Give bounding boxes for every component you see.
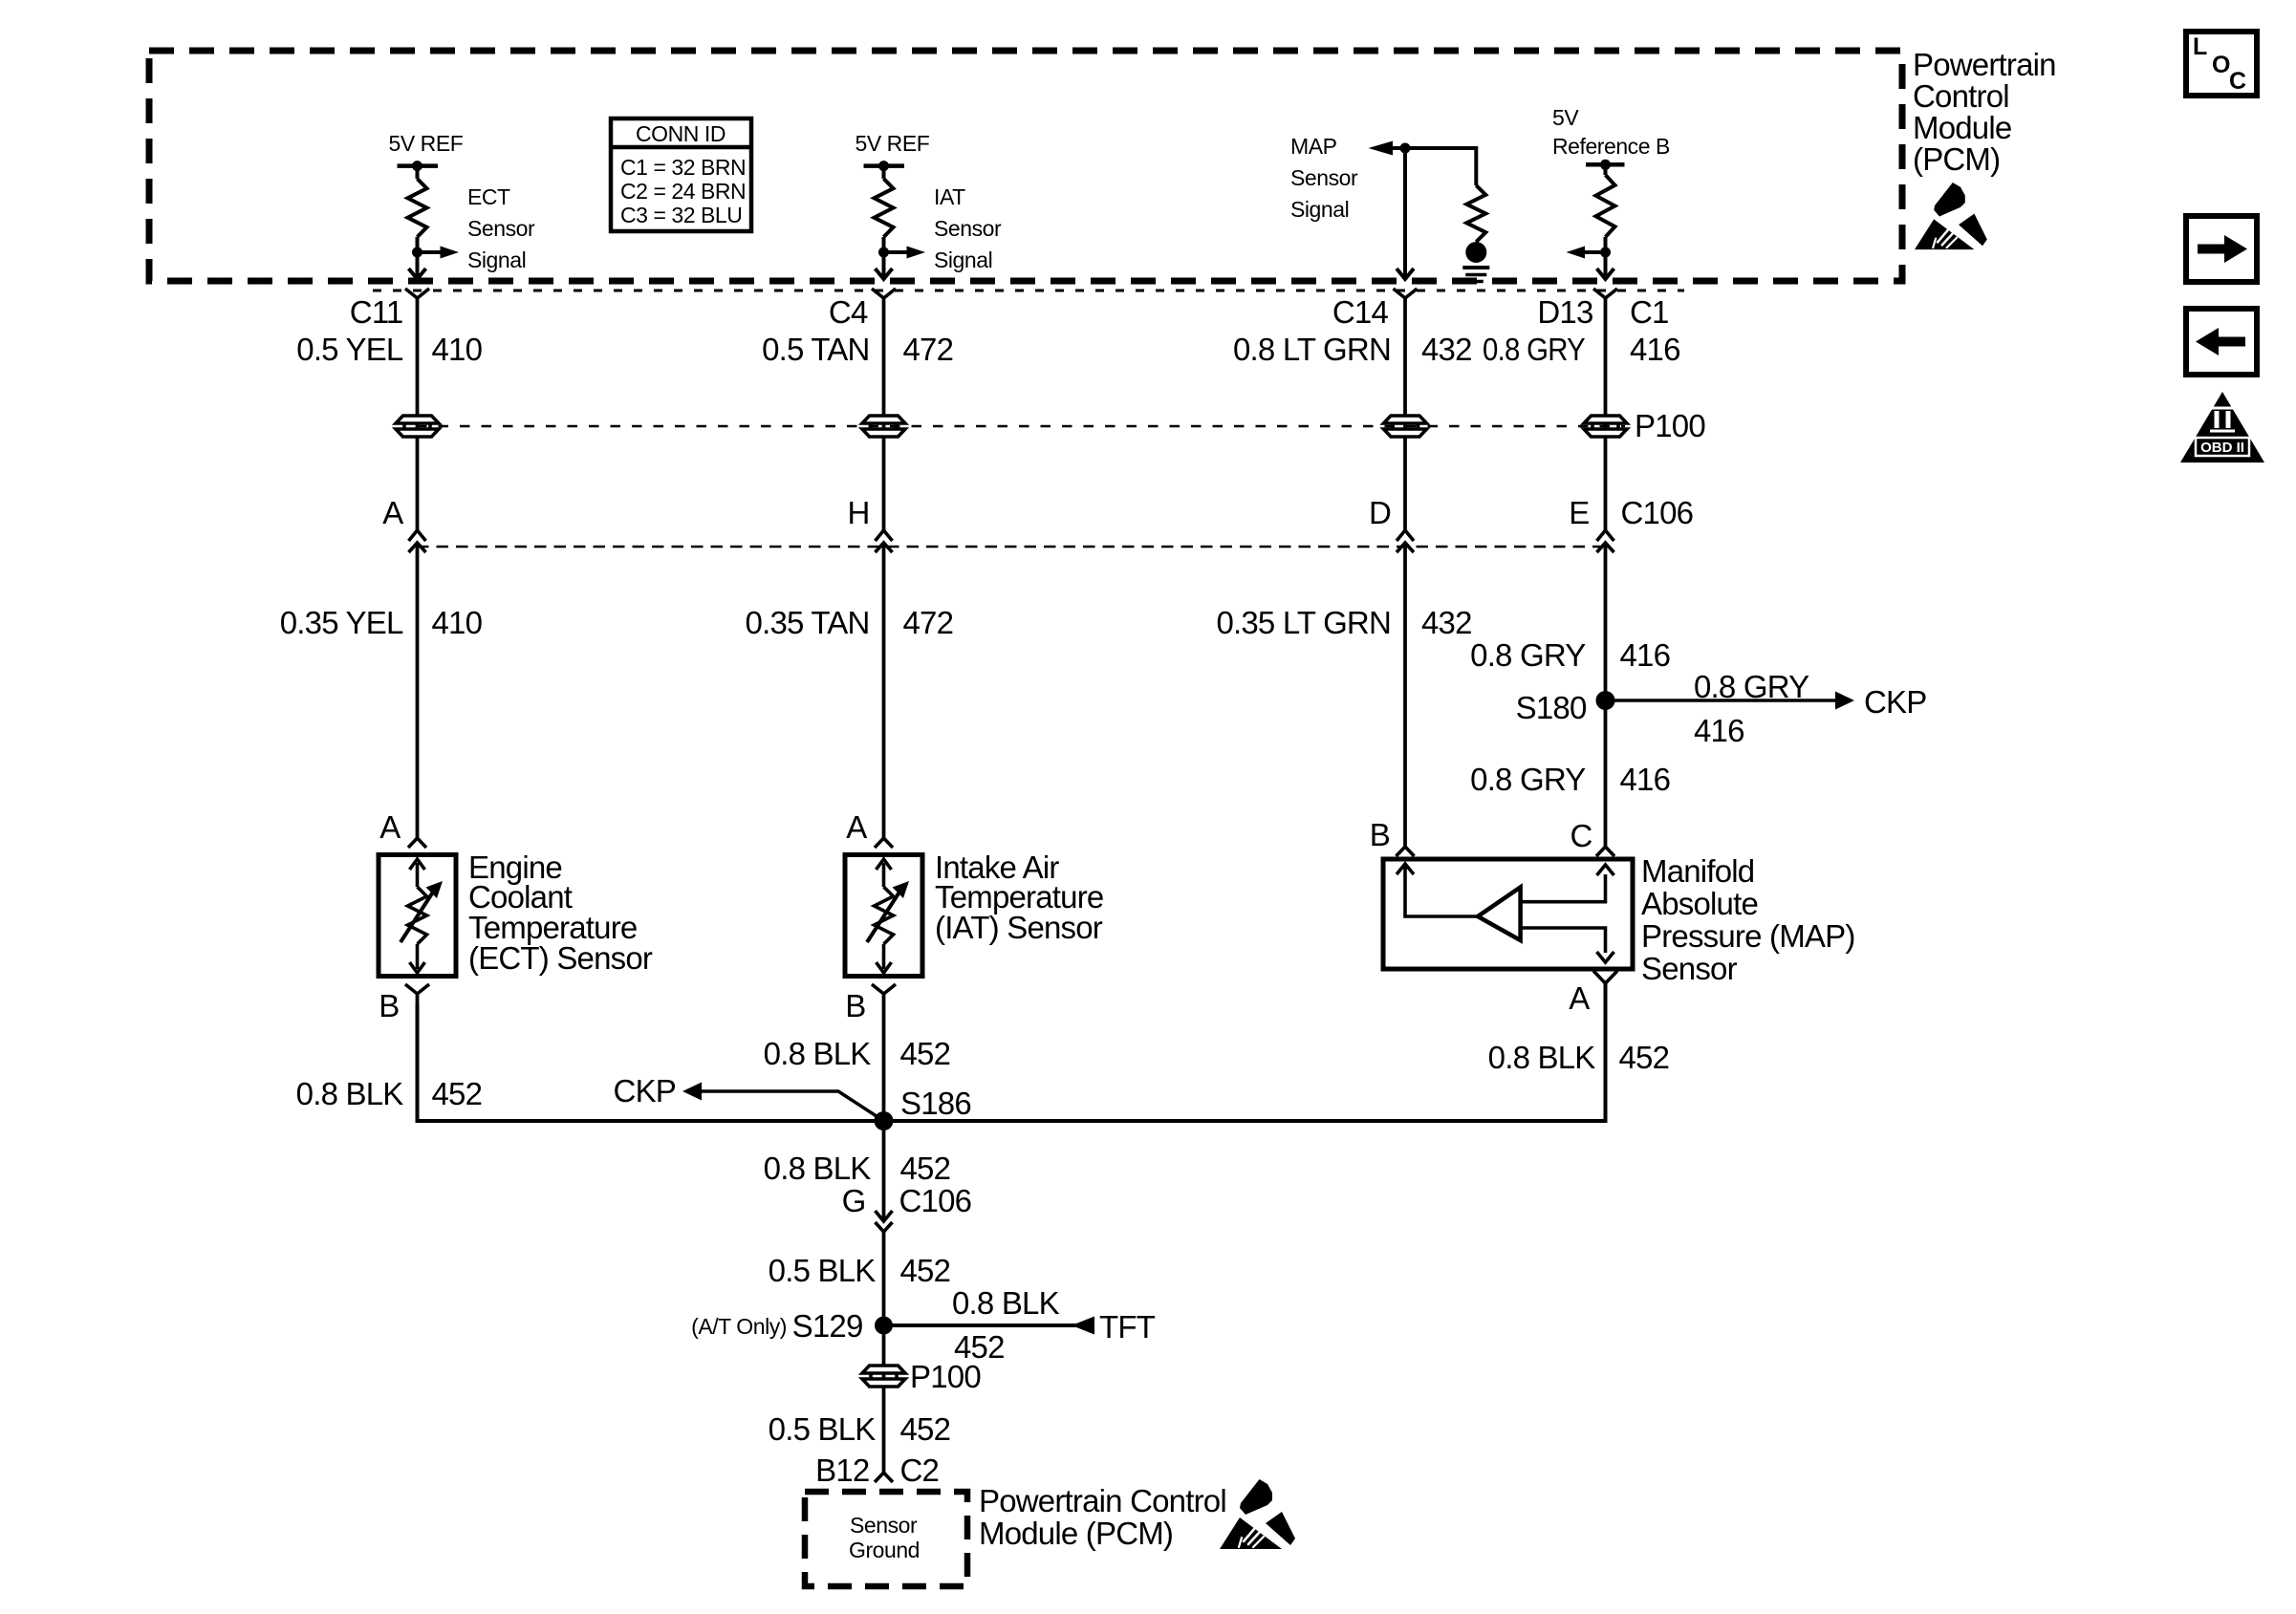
svg-text:(ECT) Sensor: (ECT) Sensor [468,940,653,976]
svg-text:OBD II: OBD II [2200,440,2244,456]
svg-text:Powertrain: Powertrain [1913,47,2056,82]
svg-text:Signal: Signal [934,247,992,272]
svg-text:Signal: Signal [467,247,526,272]
svg-text:472: 472 [903,332,954,367]
svg-text:0.8 BLK: 0.8 BLK [952,1285,1060,1321]
svg-text:432: 432 [1421,605,1472,640]
svg-text:5V: 5V [1552,105,1579,130]
svg-text:(A/T Only): (A/T Only) [691,1314,787,1339]
svg-text:Manifold: Manifold [1641,853,1754,889]
svg-text:CKP: CKP [614,1073,676,1108]
svg-text:452: 452 [900,1253,951,1288]
svg-text:MAP: MAP [1290,134,1337,159]
svg-text:L: L [2193,33,2207,60]
svg-text:0.35 YEL: 0.35 YEL [280,605,403,640]
svg-text:Absolute: Absolute [1641,886,1758,921]
svg-text:Sensor: Sensor [1641,951,1738,986]
svg-text:0.8 GRY: 0.8 GRY [1483,332,1586,367]
svg-text:452: 452 [1619,1040,1670,1075]
svg-text:B: B [1370,817,1390,852]
svg-text:CKP: CKP [1864,684,1926,720]
svg-text:C2 = 24 BRN: C2 = 24 BRN [620,179,746,204]
svg-text:Ground: Ground [849,1538,920,1562]
svg-text:C4: C4 [829,294,868,330]
svg-text:D13: D13 [1537,294,1592,330]
svg-text:0.8 GRY: 0.8 GRY [1470,637,1586,673]
svg-text:G: G [842,1183,866,1218]
svg-text:452: 452 [900,1036,951,1071]
svg-text:C1: C1 [1630,294,1669,330]
svg-text:C2: C2 [900,1453,940,1488]
svg-text:C11: C11 [350,294,403,330]
svg-text:416: 416 [1620,762,1671,797]
svg-text:(PCM): (PCM) [1913,141,2000,177]
svg-text:410: 410 [432,605,483,640]
svg-text:IAT: IAT [934,184,965,209]
svg-text:0.5 TAN: 0.5 TAN [762,332,869,367]
svg-text:ECT: ECT [467,184,510,209]
svg-text:E: E [1569,495,1589,530]
svg-text:0.5 YEL: 0.5 YEL [296,332,403,367]
svg-text:(IAT) Sensor: (IAT) Sensor [935,910,1103,945]
svg-text:0.8 GRY: 0.8 GRY [1470,762,1586,797]
svg-text:0.8 LT GRN: 0.8 LT GRN [1233,332,1391,367]
svg-text:Module (PCM): Module (PCM) [979,1516,1173,1551]
svg-text:452: 452 [432,1076,483,1111]
svg-text:P100: P100 [910,1359,981,1394]
svg-text:416: 416 [1620,637,1671,673]
svg-text:Pressure (MAP): Pressure (MAP) [1641,918,1855,954]
svg-text:5V REF: 5V REF [856,131,930,156]
svg-text:C106: C106 [899,1183,972,1218]
svg-text:0.5 BLK: 0.5 BLK [769,1411,877,1447]
svg-text:Signal: Signal [1290,197,1349,222]
svg-text:C1 = 32 BRN: C1 = 32 BRN [620,155,746,180]
svg-text:Control: Control [1913,78,2009,114]
svg-text:452: 452 [900,1411,951,1447]
svg-text:S186: S186 [900,1086,971,1121]
svg-text:0.8 BLK: 0.8 BLK [296,1076,404,1111]
svg-text:432: 432 [1421,332,1472,367]
svg-text:Powertrain Control: Powertrain Control [979,1483,1226,1518]
svg-text:416: 416 [1694,713,1744,748]
svg-text:A: A [382,495,403,530]
svg-text:452: 452 [900,1151,951,1186]
svg-text:0.5 BLK: 0.5 BLK [769,1253,877,1288]
svg-text:Reference B: Reference B [1552,134,1670,159]
svg-text:0.35 TAN: 0.35 TAN [746,605,870,640]
svg-text:C106: C106 [1621,495,1694,530]
svg-text:B: B [379,988,399,1023]
svg-text:C: C [1570,818,1592,853]
svg-text:0.8 BLK: 0.8 BLK [764,1151,872,1186]
svg-text:0.8 BLK: 0.8 BLK [1488,1040,1596,1075]
svg-text:0.35 LT GRN: 0.35 LT GRN [1216,605,1391,640]
svg-text:Sensor: Sensor [1290,165,1358,190]
svg-text:S129: S129 [792,1308,863,1344]
svg-text:A: A [846,809,867,845]
svg-text:Sensor: Sensor [467,216,535,241]
svg-text:O: O [2212,52,2230,78]
svg-text:C14: C14 [1332,294,1389,330]
svg-text:CONN ID: CONN ID [636,121,726,146]
svg-text:Sensor: Sensor [934,216,1002,241]
svg-text:S180: S180 [1516,690,1587,725]
svg-text:Sensor: Sensor [850,1513,918,1538]
svg-text:C: C [2229,68,2246,95]
svg-text:A: A [379,809,401,845]
svg-text:B12: B12 [815,1453,869,1488]
svg-text:472: 472 [903,605,954,640]
svg-text:410: 410 [432,332,483,367]
svg-text:0.8 BLK: 0.8 BLK [764,1036,872,1071]
svg-text:416: 416 [1630,332,1680,367]
svg-text:5V REF: 5V REF [389,131,464,156]
svg-text:A: A [1569,980,1590,1016]
svg-text:P100: P100 [1635,408,1705,443]
svg-text:D: D [1369,495,1391,530]
svg-text:B: B [845,988,865,1023]
svg-text:Module: Module [1913,110,2011,145]
svg-text:H: H [847,495,869,530]
svg-text:C3 = 32 BLU: C3 = 32 BLU [620,203,742,227]
svg-text:TFT: TFT [1099,1309,1156,1345]
svg-text:0.8 GRY: 0.8 GRY [1694,669,1809,704]
